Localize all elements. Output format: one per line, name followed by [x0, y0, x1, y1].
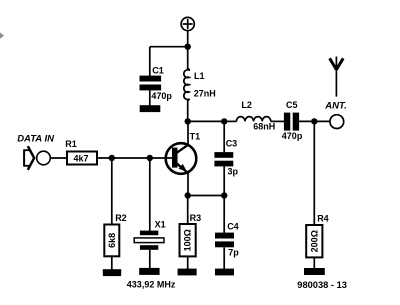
junction dot ANT node: [311, 118, 317, 124]
wire R3 top lead: [187, 196, 189, 225]
svg-text:R1: R1: [65, 139, 77, 149]
svg-text:L2: L2: [241, 100, 252, 110]
wire C3 node to L2: [224, 120, 236, 122]
capacitor C4: [215, 233, 234, 248]
wire R2 bottom lead: [111, 256, 113, 269]
wire R4 top lead: [313, 121, 315, 225]
svg-text:DATA IN: DATA IN: [17, 134, 55, 145]
svg-text:T1: T1: [190, 131, 201, 141]
svg-text:200Ω: 200Ω: [309, 230, 319, 252]
junction dot C4 top node: [221, 192, 227, 198]
junction dot top node: [185, 44, 191, 50]
wire C1 bottom lead: [149, 90, 151, 106]
wire emitter node horizontal: [188, 195, 225, 197]
svg-text:980038 - 13: 980038 - 13: [297, 280, 347, 290]
wire C4 top lead: [223, 196, 225, 234]
svg-text:4k7: 4k7: [74, 154, 89, 164]
crystal X1: [134, 231, 164, 250]
resistor R3: [180, 224, 196, 256]
svg-text:3p: 3p: [228, 167, 239, 177]
input arrow symbol: [24, 146, 35, 170]
wire supply down to top node: [187, 31, 189, 47]
ground (R2): [103, 269, 121, 276]
wire base from R1 to T1: [97, 157, 173, 159]
inductor L1: [184, 69, 189, 101]
capacitor C5: [284, 113, 299, 131]
input terminal circle: [37, 151, 51, 165]
svg-text:68nH: 68nH: [253, 122, 275, 132]
ground (C4): [215, 269, 234, 276]
svg-text:X1: X1: [155, 220, 166, 230]
wire L1 top lead: [187, 47, 189, 69]
svg-text:C3: C3: [226, 138, 238, 148]
svg-text:27nH: 27nH: [194, 89, 216, 99]
resistor R4: [306, 225, 322, 257]
svg-text:100Ω: 100Ω: [183, 229, 193, 251]
wire R3 bottom lead: [187, 256, 189, 269]
junction dot emitter node: [185, 192, 191, 198]
resistor R1: [67, 152, 97, 165]
svg-text:470p: 470p: [282, 131, 303, 141]
junction dot collector node: [185, 118, 191, 124]
wire R2 top lead: [111, 158, 113, 225]
svg-text:L1: L1: [194, 71, 205, 81]
antenna symbol: [330, 57, 344, 97]
wire collector lead: [187, 121, 189, 144]
svg-text:C4: C4: [227, 221, 239, 231]
junction dot X1 node: [147, 155, 153, 161]
wire collector node horizontal: [188, 120, 225, 122]
scan artifact grey mark: [0, 33, 4, 39]
ANT terminal circle: [330, 115, 344, 129]
wire C3 top lead: [223, 121, 225, 152]
wire terminal to R1: [50, 157, 67, 159]
wire R4 bottom lead: [313, 257, 315, 268]
wire C1 top lead: [149, 47, 151, 76]
ground (R3): [178, 269, 197, 276]
power supply + terminal: [181, 17, 194, 30]
wire X1 top lead: [149, 158, 151, 231]
wire C5 to ANT node: [299, 120, 330, 122]
wire X1 bottom lead: [149, 250, 151, 269]
ground (C1): [140, 105, 161, 112]
svg-text:433,92 MHz: 433,92 MHz: [127, 279, 176, 289]
junction dot C3 top node: [221, 118, 227, 124]
resistor R2: [104, 225, 119, 257]
transistor T1: [166, 143, 197, 174]
wire L1 bottom lead: [187, 100, 189, 122]
wire emitter lead: [187, 173, 189, 196]
ground (R4): [304, 268, 325, 275]
svg-text:C1: C1: [152, 66, 164, 76]
inductor L2: [236, 117, 270, 122]
ground (X1): [139, 268, 159, 275]
svg-text:R3: R3: [190, 213, 202, 223]
svg-text:R4: R4: [317, 214, 329, 224]
svg-text:470p: 470p: [151, 91, 172, 101]
wire C4 bottom lead: [223, 247, 225, 269]
wire C3 bottom lead: [223, 166, 225, 195]
svg-text:ANT.: ANT.: [324, 101, 346, 112]
svg-text:R2: R2: [115, 213, 127, 223]
wire L2 to C5: [271, 120, 285, 122]
capacitor C3: [214, 152, 233, 166]
capacitor C1: [140, 76, 162, 91]
svg-text:7p: 7p: [228, 248, 239, 258]
svg-text:C5: C5: [286, 100, 298, 110]
junction dot R2 node: [109, 155, 115, 161]
svg-text:6k8: 6k8: [107, 233, 117, 248]
wire top horizontal node to C1: [150, 46, 188, 48]
